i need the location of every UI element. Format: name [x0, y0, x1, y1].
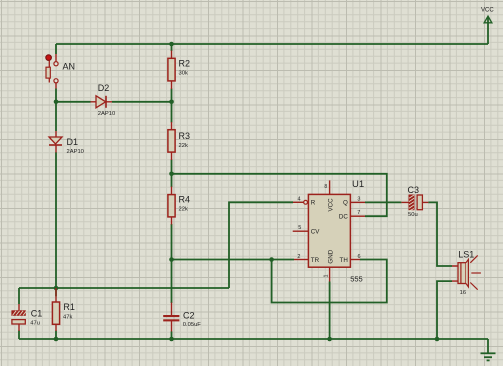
wire C1 bottom: [18, 331, 20, 340]
wire R4 bottom: [171, 224, 173, 260]
svg-text:C2: C2: [183, 310, 195, 320]
wire TR row to pin2: [172, 259, 295, 261]
op-amp U1 555 timer body: [308, 179, 364, 283]
svg-text:D2: D2: [98, 83, 110, 93]
wire C1 top: [18, 288, 20, 304]
capacitor C1: [12, 304, 42, 331]
svg-text:LS1: LS1: [458, 249, 474, 259]
svg-text:DC: DC: [339, 214, 348, 221]
speaker LS1: [452, 249, 481, 296]
svg-text:R4: R4: [179, 194, 191, 204]
pin 5 CV stub: [293, 225, 309, 231]
pin 7 DC stub: [350, 210, 365, 216]
junction node button/D1/D2: [54, 100, 59, 105]
svg-text:D1: D1: [67, 137, 79, 147]
svg-text:16: 16: [460, 290, 466, 296]
wire bottom ground rail: [19, 338, 488, 340]
wire gnd symbol stem: [487, 339, 489, 353]
svg-text:6: 6: [358, 254, 361, 260]
pin name labels U1: [311, 198, 349, 264]
svg-text:C1: C1: [31, 308, 43, 318]
svg-text:4: 4: [298, 196, 301, 202]
resistor R1: [52, 288, 75, 331]
wire D2 row left: [56, 101, 91, 103]
resistor R2: [168, 51, 190, 90]
pin 3 Q stub: [350, 196, 365, 202]
svg-text:C3: C3: [408, 185, 420, 195]
wire D2 row right: [112, 101, 172, 103]
junction node pin1 rail: [327, 337, 332, 342]
svg-text:VCC: VCC: [327, 198, 334, 212]
diode D2: [91, 83, 116, 117]
svg-text:50u: 50u: [408, 212, 418, 218]
junction node R2 top: [169, 42, 174, 47]
svg-text:U1: U1: [352, 179, 364, 190]
capacitor C3: [401, 185, 428, 218]
svg-text:R1: R1: [63, 302, 75, 312]
svg-text:47u: 47u: [30, 321, 40, 327]
power VCC symbol: [481, 8, 494, 44]
wire R1 bottom: [55, 331, 57, 340]
junction node C2 bottom rail: [169, 337, 174, 342]
svg-text:CV: CV: [311, 229, 320, 236]
resistor R4: [168, 187, 190, 225]
junction node R4/C2/TR: [169, 257, 174, 262]
svg-text:2AP10: 2AP10: [67, 149, 84, 155]
svg-text:GND: GND: [327, 249, 334, 263]
wire R3R4 node to pin7 DC loop: [172, 174, 387, 216]
pin 1 GND stub: [324, 267, 330, 281]
wire C2 top: [171, 260, 173, 304]
svg-text:2AP10: 2AP10: [98, 111, 115, 117]
svg-text:VCC: VCC: [481, 8, 494, 14]
wire top VCC rail: [56, 43, 488, 45]
wire button top drop: [55, 44, 57, 54]
svg-text:8: 8: [324, 184, 327, 190]
pin 8 VCC stub: [324, 180, 329, 194]
svg-text:1: 1: [324, 274, 330, 277]
wire pin1 GND drop: [329, 282, 331, 340]
junction node R2/R3/D2: [169, 100, 174, 105]
svg-text:5: 5: [298, 225, 301, 231]
svg-text:30k: 30k: [179, 71, 188, 77]
svg-text:2: 2: [297, 254, 300, 260]
svg-text:555: 555: [350, 274, 363, 283]
svg-text:R3: R3: [179, 131, 191, 141]
wire R4 top: [171, 174, 173, 187]
svg-text:TR: TR: [311, 257, 320, 264]
wire R3 top: [171, 102, 173, 123]
wire node to TH pin6 loop: [272, 260, 387, 303]
capacitor C2: [163, 303, 201, 332]
resistor R3: [168, 122, 190, 160]
wire R2 top: [171, 44, 173, 51]
wire C2 bottom: [171, 331, 173, 339]
wire D1 top: [55, 102, 57, 131]
svg-text:TH: TH: [340, 257, 348, 264]
junction node R1 top: [54, 286, 59, 291]
svg-text:22k: 22k: [179, 206, 188, 212]
button AN: [46, 54, 75, 89]
junction node TR/TH branch: [269, 257, 274, 262]
wire button bottom to node: [55, 89, 57, 102]
pin 4 R stub with bubble: [293, 196, 308, 204]
wire C3 to speaker top: [428, 202, 452, 266]
pin 6 TH stub: [350, 254, 360, 260]
junction node R1 bottom rail: [54, 337, 59, 342]
ground symbol: [481, 353, 496, 360]
wire left net horizontal: [19, 287, 229, 289]
wire pin4 R run: [229, 202, 293, 288]
svg-text:22k: 22k: [179, 143, 188, 149]
svg-text:AN: AN: [63, 62, 76, 72]
svg-text:R2: R2: [179, 58, 191, 68]
svg-text:3: 3: [357, 196, 360, 202]
wire D1 bottom long drop: [55, 152, 57, 288]
diode D1: [49, 131, 84, 155]
svg-text:0.05uF: 0.05uF: [183, 322, 202, 328]
wire R2 bottom: [171, 89, 173, 102]
wire R3 bottom: [171, 160, 173, 174]
junction node speaker rail: [435, 337, 440, 342]
pin 2 TR stub: [294, 254, 308, 260]
svg-text:Q: Q: [343, 200, 348, 207]
junction node R3/R4/pin7: [169, 172, 174, 177]
wire pin3 Q to C3: [365, 201, 401, 203]
svg-text:R: R: [311, 200, 316, 207]
wire speaker bottom to rail: [437, 281, 452, 339]
svg-text:7: 7: [357, 210, 360, 216]
svg-text:47k: 47k: [63, 314, 72, 320]
wire R1 top: [55, 288, 57, 296]
